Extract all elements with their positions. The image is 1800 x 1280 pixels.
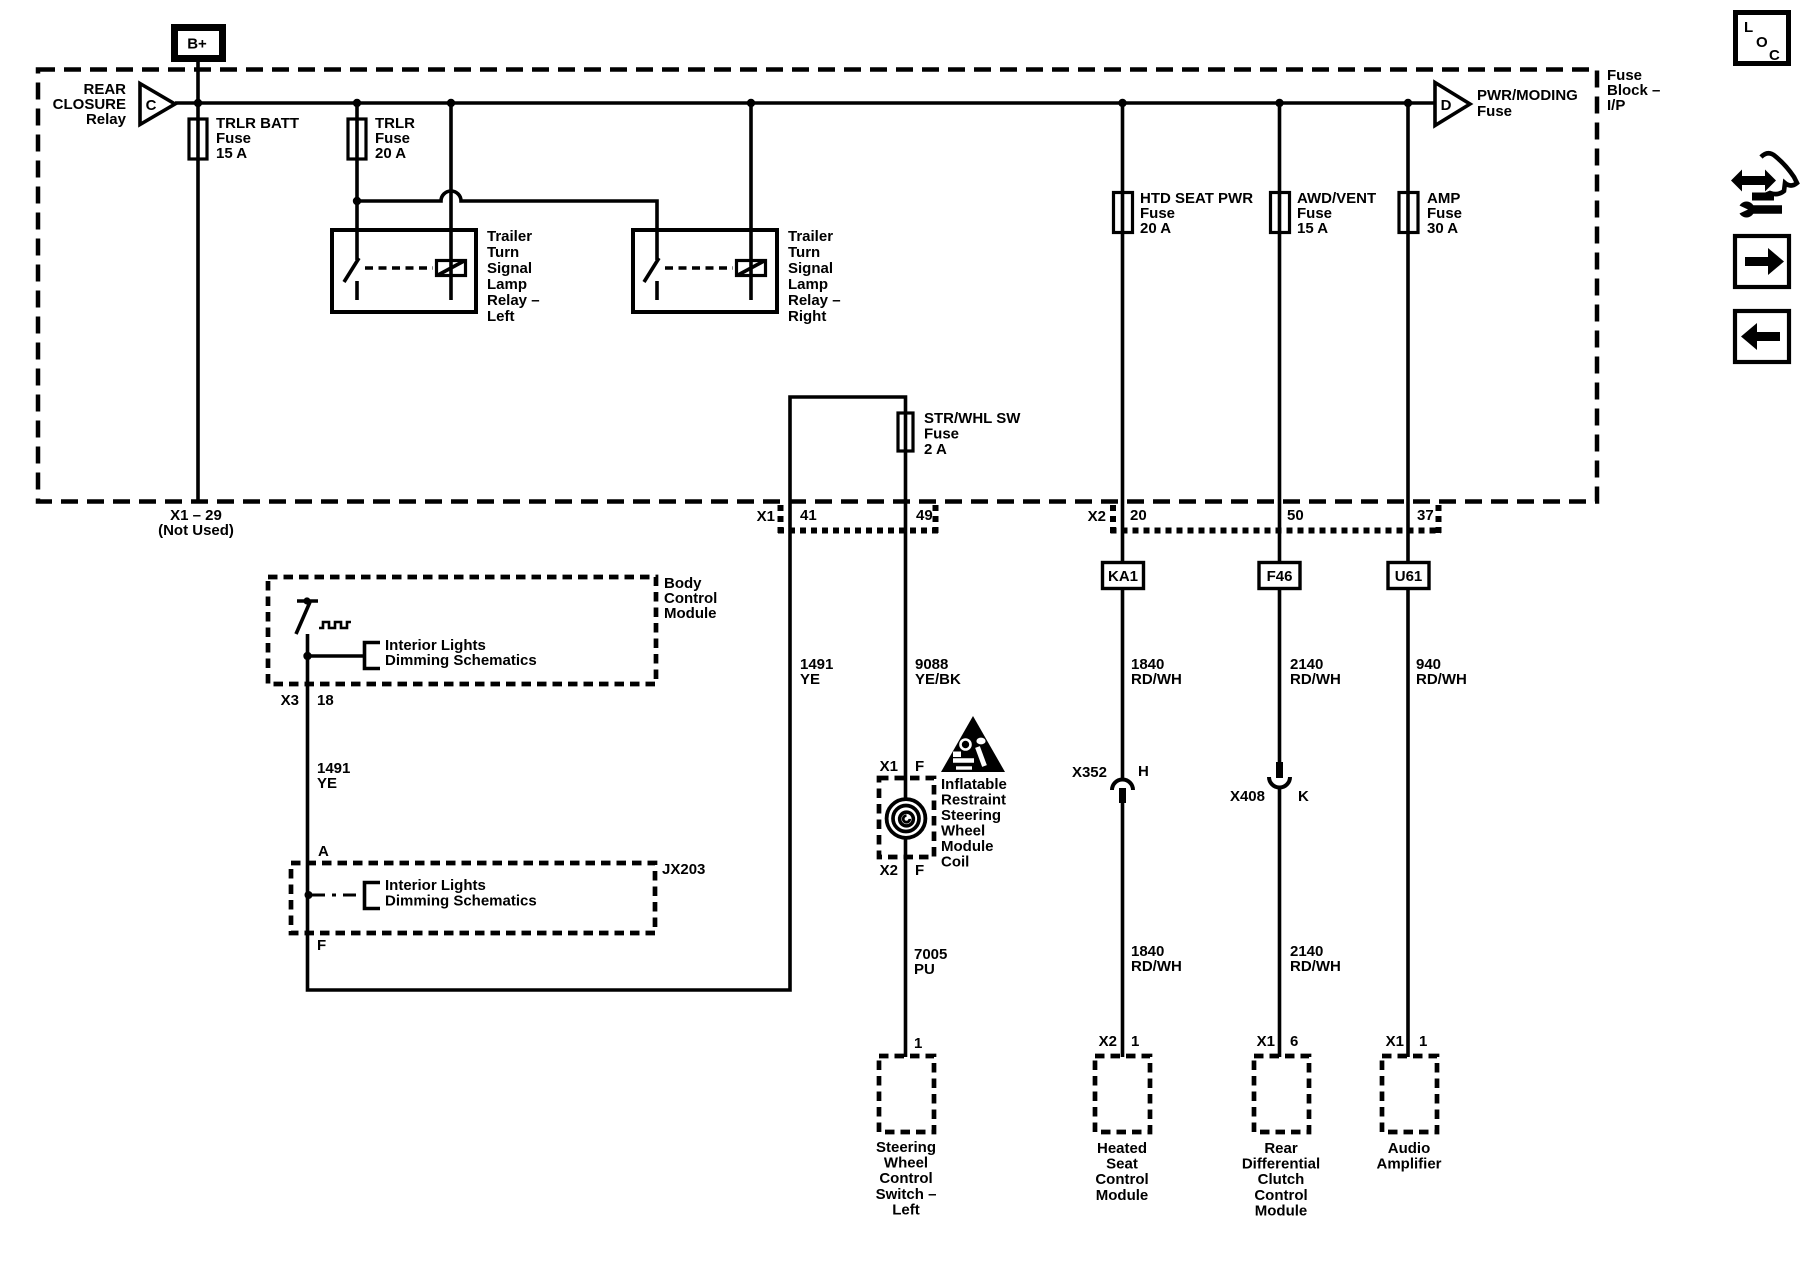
label circuit 7005 PU: [914, 946, 947, 978]
svg-text:Steering: Steering: [941, 807, 1001, 824]
junction node relay branch: [353, 197, 361, 205]
svg-text:Clutch: Clutch: [1258, 1171, 1305, 1188]
svg-text:X1: X1: [1386, 1033, 1404, 1050]
svg-text:YE: YE: [800, 671, 820, 688]
back arrow box: [1735, 311, 1789, 362]
svg-text:RD/WH: RD/WH: [1131, 671, 1182, 688]
label Rear Differential Clutch Control Module: [1242, 1140, 1320, 1219]
wire TRLR fuse to left relay switch: [355, 103, 359, 260]
label circuit 2140 RD/WH upper: [1290, 656, 1341, 688]
svg-text:Module: Module: [1096, 1187, 1149, 1204]
svg-text:X1: X1: [757, 508, 775, 525]
left relay switch blade: [344, 258, 359, 282]
wire 7005 PU coil to steering wheel switch: [904, 836, 908, 1057]
svg-text:Module: Module: [1255, 1202, 1308, 1219]
svg-text:F46: F46: [1267, 568, 1293, 585]
svg-text:Left: Left: [487, 308, 515, 325]
JX203 dash-dot link to Interior Lights Dimming Schematics: [312, 877, 537, 910]
svg-text:X2: X2: [1088, 508, 1106, 525]
svg-text:15 A: 15 A: [1297, 220, 1328, 237]
fuse TRLR BATT 15A: [189, 115, 299, 162]
label circuit 2140 RD/WH lower: [1290, 943, 1341, 975]
svg-text:Left: Left: [892, 1201, 920, 1218]
svg-text:Module: Module: [664, 605, 717, 622]
svg-text:Signal: Signal: [487, 260, 532, 277]
airbag warning triangle: [941, 716, 1005, 772]
svg-text:Steering: Steering: [876, 1139, 936, 1156]
wire U61 to Audio Amplifier: [1406, 588, 1410, 1057]
wire F46 to X408: [1278, 588, 1282, 764]
svg-text:Relay –: Relay –: [487, 292, 540, 309]
label circuit 940 RD/WH: [1416, 656, 1467, 688]
service tool icon: [1731, 153, 1797, 217]
link to Interior Lights Dimming Schematics: [308, 637, 537, 669]
svg-text:30 A: 30 A: [1427, 220, 1458, 237]
junction node left coil feed: [447, 99, 455, 107]
wire bus to right relay coil: [749, 103, 753, 300]
wire B+ feed through TRLR BATT fuse to X1-29: [196, 62, 200, 501]
svg-text:X1: X1: [1257, 1033, 1275, 1050]
Audio Amplifier dashed box: [1382, 1056, 1437, 1132]
svg-text:Relay: Relay: [86, 111, 127, 128]
left relay coil: [437, 261, 466, 276]
svg-text:YE/BK: YE/BK: [915, 671, 961, 688]
svg-text:Module: Module: [941, 838, 994, 855]
svg-text:Seat: Seat: [1106, 1156, 1138, 1173]
left relay switch lower stub: [355, 281, 359, 300]
svg-text:Turn: Turn: [788, 244, 820, 261]
label Body Control Module: [664, 575, 717, 622]
svg-text:RD/WH: RD/WH: [1131, 958, 1182, 975]
svg-text:Relay –: Relay –: [788, 292, 841, 309]
svg-text:Control: Control: [879, 1170, 932, 1187]
label pin X1-29 not used: [158, 507, 234, 539]
svg-text:Differential: Differential: [1242, 1156, 1320, 1173]
svg-text:Lamp: Lamp: [788, 276, 828, 293]
inline connector X352: [1112, 780, 1133, 804]
relay box Trailer Turn Signal Lamp Relay Left: [332, 230, 476, 312]
svg-text:Lamp: Lamp: [487, 276, 527, 293]
triangle connector C REAR CLOSURE Relay: [140, 84, 175, 125]
component code U61: [1388, 563, 1429, 589]
right relay switch blade: [644, 258, 659, 282]
junction node B+ tap: [194, 99, 202, 107]
svg-text:15 A: 15 A: [216, 145, 247, 162]
JX203 node dot: [305, 891, 313, 899]
label Trailer Turn Signal Lamp Relay Right: [788, 228, 841, 325]
fuse STR/WHL SW 2A: [898, 410, 1021, 458]
svg-text:41: 41: [800, 507, 817, 524]
label Trailer Turn Signal Lamp Relay Left: [487, 228, 540, 325]
component code KA1: [1103, 563, 1144, 589]
svg-text:X3: X3: [281, 692, 299, 709]
svg-text:RD/WH: RD/WH: [1290, 958, 1341, 975]
svg-text:50: 50: [1287, 507, 1304, 524]
svg-text:STR/WHL SW: STR/WHL SW: [924, 410, 1021, 427]
inline connector X408: [1269, 762, 1290, 788]
right relay switch lower stub: [655, 281, 659, 300]
junction node AMP tap: [1404, 99, 1412, 107]
forward arrow box: [1735, 236, 1789, 287]
svg-text:O: O: [1756, 34, 1768, 51]
svg-text:Fuse: Fuse: [924, 426, 959, 443]
svg-text:A: A: [318, 843, 329, 860]
svg-text:Switch –: Switch –: [876, 1186, 937, 1203]
svg-text:(Not Used): (Not Used): [158, 522, 234, 539]
wire X352 to Heated Seat module: [1121, 802, 1125, 1057]
svg-text:RD/WH: RD/WH: [1290, 671, 1341, 688]
component code F46: [1259, 563, 1300, 589]
Rear Differential Clutch Control Module dashed box: [1254, 1056, 1309, 1132]
label circuit 1840 RD/WH lower: [1131, 943, 1182, 975]
svg-text:KA1: KA1: [1108, 568, 1138, 585]
LOC legend box: [1736, 13, 1789, 65]
svg-text:2 A: 2 A: [924, 441, 947, 458]
svg-text:Dimming Schematics: Dimming Schematics: [385, 893, 537, 910]
relay box Trailer Turn Signal Lamp Relay Right: [633, 230, 777, 312]
svg-text:Wheel: Wheel: [884, 1155, 928, 1172]
svg-text:49: 49: [916, 507, 933, 524]
svg-text:Trailer: Trailer: [487, 228, 532, 245]
connector X1 dotted box at fuse block: [778, 505, 938, 533]
right relay coil: [737, 261, 766, 276]
svg-text:20 A: 20 A: [375, 145, 406, 162]
fuse block I/P dashed border: [38, 70, 1597, 502]
svg-text:Interior Lights: Interior Lights: [385, 877, 486, 894]
svg-text:I/P: I/P: [1607, 97, 1625, 114]
svg-text:L: L: [1744, 19, 1753, 36]
label Fuse Block I/P: [1607, 67, 1660, 114]
svg-text:X2: X2: [1099, 1033, 1117, 1050]
splice pack JX203 dashed box: [291, 863, 655, 933]
label REAR CLOSURE Relay: [53, 81, 127, 128]
junction node HTD SEAT tap: [1118, 99, 1126, 107]
svg-text:Coil: Coil: [941, 854, 969, 871]
B+ battery positive terminal: [175, 28, 223, 59]
svg-text:RD/WH: RD/WH: [1416, 671, 1467, 688]
svg-text:Rear: Rear: [1264, 1140, 1298, 1157]
svg-text:U61: U61: [1395, 568, 1423, 585]
label Audio Amplifier: [1376, 1140, 1441, 1173]
label PWR/MODING Fuse: [1477, 87, 1578, 120]
svg-text:Trailer: Trailer: [788, 228, 833, 245]
clockspring coil spiral: [887, 799, 926, 838]
label Heated Seat Control Module: [1095, 1140, 1148, 1204]
svg-text:20 A: 20 A: [1140, 220, 1171, 237]
BCM interior lights dimmer symbol: [296, 597, 351, 634]
svg-text:Right: Right: [788, 308, 826, 325]
wire 1491 YE loop BCM to X1-41 and STR/WHL fuse feed: [308, 397, 906, 990]
wire KA1 to X352: [1121, 588, 1125, 778]
junction node right coil feed: [747, 99, 755, 107]
svg-text:D: D: [1441, 97, 1452, 114]
svg-text:Wheel: Wheel: [941, 823, 985, 840]
fuse TRLR 20A: [348, 115, 415, 162]
wire branch to right relay switch with hop: [357, 191, 657, 260]
svg-text:PWR/MODING: PWR/MODING: [1477, 87, 1578, 104]
svg-text:Dimming Schematics: Dimming Schematics: [385, 652, 537, 669]
connector X2 dotted box at fuse block: [1111, 505, 1442, 533]
svg-text:JX203: JX203: [662, 861, 705, 878]
wire AWD VENT fuse to F46: [1278, 103, 1282, 563]
svg-text:Restraint: Restraint: [941, 792, 1006, 809]
Steering Wheel Control Switch Left dashed box: [879, 1056, 934, 1132]
svg-text:F: F: [317, 937, 326, 954]
svg-text:Amplifier: Amplifier: [1376, 1156, 1441, 1173]
svg-text:B+: B+: [187, 36, 207, 53]
label circuit 1491 YE at BCM: [317, 760, 350, 792]
svg-text:Control: Control: [1254, 1187, 1307, 1204]
svg-text:F: F: [915, 862, 924, 879]
label circuit 1491 YE at pin 41: [800, 656, 833, 688]
fuse AWD/VENT 15A: [1271, 190, 1377, 237]
svg-text:K: K: [1298, 788, 1309, 805]
svg-text:6: 6: [1290, 1033, 1298, 1050]
svg-text:1: 1: [1419, 1033, 1427, 1050]
fuse HTD SEAT PWR 20A: [1114, 190, 1254, 237]
label circuit 9088 YE/BK: [915, 656, 961, 688]
svg-text:37: 37: [1417, 507, 1434, 524]
svg-text:Turn: Turn: [487, 244, 519, 261]
main battery bus wire: [175, 101, 1434, 105]
svg-text:C: C: [1769, 47, 1780, 64]
svg-text:X1: X1: [880, 758, 898, 775]
label Steering Wheel Control Switch Left: [876, 1139, 937, 1218]
svg-text:H: H: [1138, 763, 1149, 780]
svg-text:C: C: [146, 97, 157, 114]
svg-text:20: 20: [1130, 507, 1147, 524]
wire HTD SEAT PWR fuse to KA1: [1121, 103, 1125, 563]
svg-text:PU: PU: [914, 961, 935, 978]
label circuit 1840 RD/WH upper: [1131, 656, 1182, 688]
Inflatable Restraint Steering Wheel Module Coil dashed box: [879, 778, 934, 857]
svg-text:18: 18: [317, 692, 334, 709]
Heated Seat Control Module dashed box: [1095, 1056, 1150, 1132]
wire bus to left relay coil: [449, 103, 453, 300]
junction node TRLR fuse tap: [353, 99, 361, 107]
left relay actuation dashed link: [365, 266, 433, 270]
svg-text:X352: X352: [1072, 764, 1107, 781]
svg-text:Control: Control: [1095, 1171, 1148, 1188]
svg-text:1: 1: [1131, 1033, 1139, 1050]
svg-text:Fuse: Fuse: [1477, 103, 1512, 120]
svg-text:X2: X2: [880, 862, 898, 879]
svg-text:YE: YE: [317, 775, 337, 792]
triangle connector D PWR/MODING Fuse: [1435, 83, 1470, 126]
svg-text:X408: X408: [1230, 788, 1265, 805]
wire X408 to Rear Differential module: [1278, 787, 1282, 1057]
svg-text:F: F: [915, 758, 924, 775]
svg-text:Signal: Signal: [788, 260, 833, 277]
svg-text:Inflatable: Inflatable: [941, 776, 1007, 793]
svg-text:Audio: Audio: [1388, 1140, 1431, 1157]
right relay actuation dashed link: [665, 266, 733, 270]
svg-text:1: 1: [914, 1035, 922, 1052]
svg-text:Heated: Heated: [1097, 1140, 1147, 1157]
label Inflatable Restraint Steering Wheel Module Coil: [941, 776, 1007, 871]
fuse AMP 30A: [1399, 190, 1462, 237]
Body Control Module dashed box: [268, 577, 656, 684]
wire AMP fuse to U61: [1406, 103, 1410, 563]
junction node BCM dimmer output: [303, 652, 311, 660]
junction node AWD VENT tap: [1275, 99, 1283, 107]
